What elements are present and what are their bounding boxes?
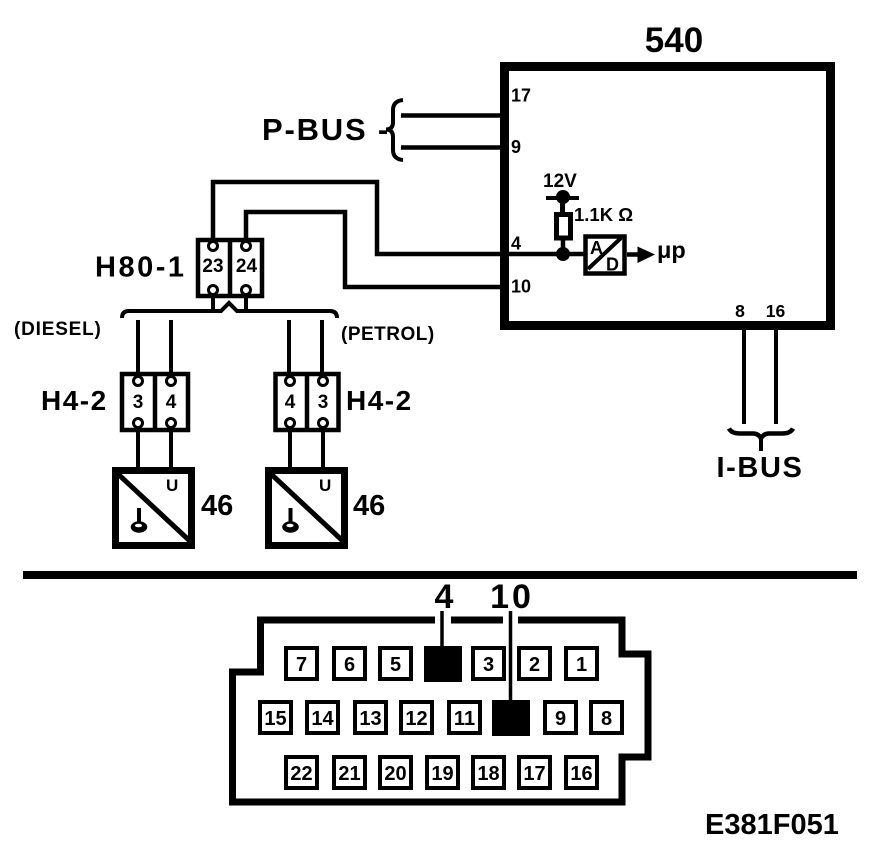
svg-text:(PETROL): (PETROL) — [341, 324, 435, 345]
pin 5 — [380, 648, 411, 679]
connector H4-2 diesel — [122, 374, 188, 430]
svg-text:6: 6 — [344, 654, 355, 676]
svg-text:P-BUS -: P-BUS - — [262, 112, 390, 147]
resistor R 1.1K — [557, 215, 571, 255]
svg-text:16: 16 — [766, 301, 786, 321]
pin 10 filled — [492, 700, 530, 736]
svg-text:9: 9 — [555, 708, 566, 730]
pin 16 — [566, 757, 597, 788]
temperature sensor 46 diesel — [116, 471, 193, 546]
svg-text:24: 24 — [236, 256, 258, 277]
I-BUS wire from pin 8 — [742, 330, 746, 424]
pin 13 — [355, 702, 386, 733]
svg-text:19: 19 — [431, 763, 453, 785]
svg-text:10: 10 — [511, 277, 531, 297]
svg-text:12V: 12V — [543, 171, 577, 192]
pin 7 — [286, 648, 317, 679]
I-BUS wire from pin 16 — [774, 330, 778, 424]
svg-text:8: 8 — [735, 301, 745, 321]
svg-text:14: 14 — [311, 708, 334, 730]
pin 17 — [519, 757, 550, 788]
svg-text:10: 10 — [490, 578, 534, 616]
svg-text:U: U — [319, 476, 331, 495]
svg-text:μp: μp — [657, 237, 686, 263]
svg-text:17: 17 — [523, 763, 545, 785]
svg-text:23: 23 — [202, 256, 223, 277]
svg-text:5: 5 — [390, 654, 401, 676]
svg-text:12: 12 — [405, 708, 427, 730]
pin 21 — [334, 757, 365, 788]
P-BUS brace — [386, 100, 403, 160]
connector H4-2 petrol — [276, 374, 339, 430]
wire H4-2 petrol to sensor — [288, 430, 292, 470]
wire brace to H4-2 diesel pin 3 — [136, 320, 140, 376]
wire brace to H4-2 diesel pin 4 — [169, 320, 173, 376]
pin 19 — [427, 757, 458, 788]
selector brace diesel/petrol — [122, 303, 337, 318]
svg-text:4: 4 — [166, 392, 177, 413]
svg-text:15: 15 — [264, 708, 286, 730]
svg-text:H4-2: H4-2 — [346, 385, 413, 416]
pin 18 — [473, 757, 504, 788]
junction node — [556, 247, 570, 261]
svg-text:D: D — [606, 255, 619, 275]
pin 6 — [334, 648, 365, 679]
pin 10 leader label — [490, 578, 534, 702]
svg-text:18: 18 — [477, 763, 499, 785]
pin 8 — [591, 702, 622, 733]
A/D converter U — [586, 237, 625, 275]
temperature sensor 46 petrol — [269, 471, 346, 546]
wire P-BUS to pin 17 — [401, 113, 504, 118]
pin 22 — [286, 757, 317, 788]
pin 15 — [260, 702, 291, 733]
pin 12 — [401, 702, 432, 733]
svg-text:A: A — [590, 238, 603, 258]
pin 9 — [545, 702, 576, 733]
wire H80-1 pin 23 to ECU pin 4 — [213, 182, 584, 254]
svg-text:9: 9 — [511, 137, 521, 157]
svg-text:U: U — [166, 476, 178, 495]
svg-text:8: 8 — [601, 708, 612, 730]
12V supply symbol — [546, 190, 579, 214]
ECU box 540 — [505, 67, 831, 326]
svg-text:20: 20 — [384, 763, 406, 785]
svg-text:46: 46 — [353, 490, 385, 522]
arrow to microprocessor — [627, 247, 655, 264]
svg-text:3: 3 — [133, 392, 144, 413]
wire P-BUS to pin 9 — [401, 145, 504, 150]
svg-text:2: 2 — [529, 654, 540, 676]
wire — [321, 430, 325, 470]
pin 4 filled — [424, 646, 462, 682]
svg-text:4: 4 — [435, 578, 454, 616]
wire H4-2 diesel to sensor — [136, 430, 140, 470]
svg-text:21: 21 — [338, 763, 360, 785]
section divider — [23, 571, 857, 579]
pin 4 leader label — [435, 578, 454, 648]
svg-text:16: 16 — [570, 763, 592, 785]
svg-text:13: 13 — [359, 708, 381, 730]
svg-text:I-BUS: I-BUS — [717, 452, 804, 484]
svg-text:1.1K Ω: 1.1K Ω — [574, 204, 633, 225]
svg-text:17: 17 — [511, 86, 531, 106]
wire H80-1 pin 24 to ECU pin 10 — [246, 212, 507, 287]
pin 20 — [380, 757, 411, 788]
svg-text:(DIESEL): (DIESEL) — [14, 319, 102, 340]
svg-text:4: 4 — [285, 392, 296, 413]
pin 14 — [307, 702, 338, 733]
pin 2 — [519, 648, 550, 679]
svg-text:H80-1: H80-1 — [95, 252, 187, 284]
pin 11 — [449, 702, 480, 733]
svg-text:3: 3 — [318, 392, 329, 413]
svg-text:7: 7 — [296, 654, 307, 676]
svg-text:540: 540 — [645, 21, 703, 60]
svg-text:4: 4 — [511, 234, 521, 254]
wire — [169, 430, 173, 470]
svg-text:1: 1 — [576, 654, 587, 676]
I-BUS brace — [729, 429, 793, 452]
svg-text:46: 46 — [201, 490, 233, 522]
wire brace to H4-2 petrol pin 4 — [287, 320, 291, 376]
pin 3 — [473, 648, 504, 679]
svg-text:E381F051: E381F051 — [705, 809, 839, 841]
connector H80-1 — [198, 240, 262, 309]
svg-text:H4-2: H4-2 — [41, 385, 108, 416]
svg-text:3: 3 — [483, 654, 494, 676]
svg-text:22: 22 — [290, 763, 312, 785]
svg-text:11: 11 — [454, 708, 475, 730]
connector housing outline — [233, 620, 649, 802]
wire brace to H4-2 petrol pin 3 — [320, 320, 324, 376]
pin 1 — [566, 648, 597, 679]
